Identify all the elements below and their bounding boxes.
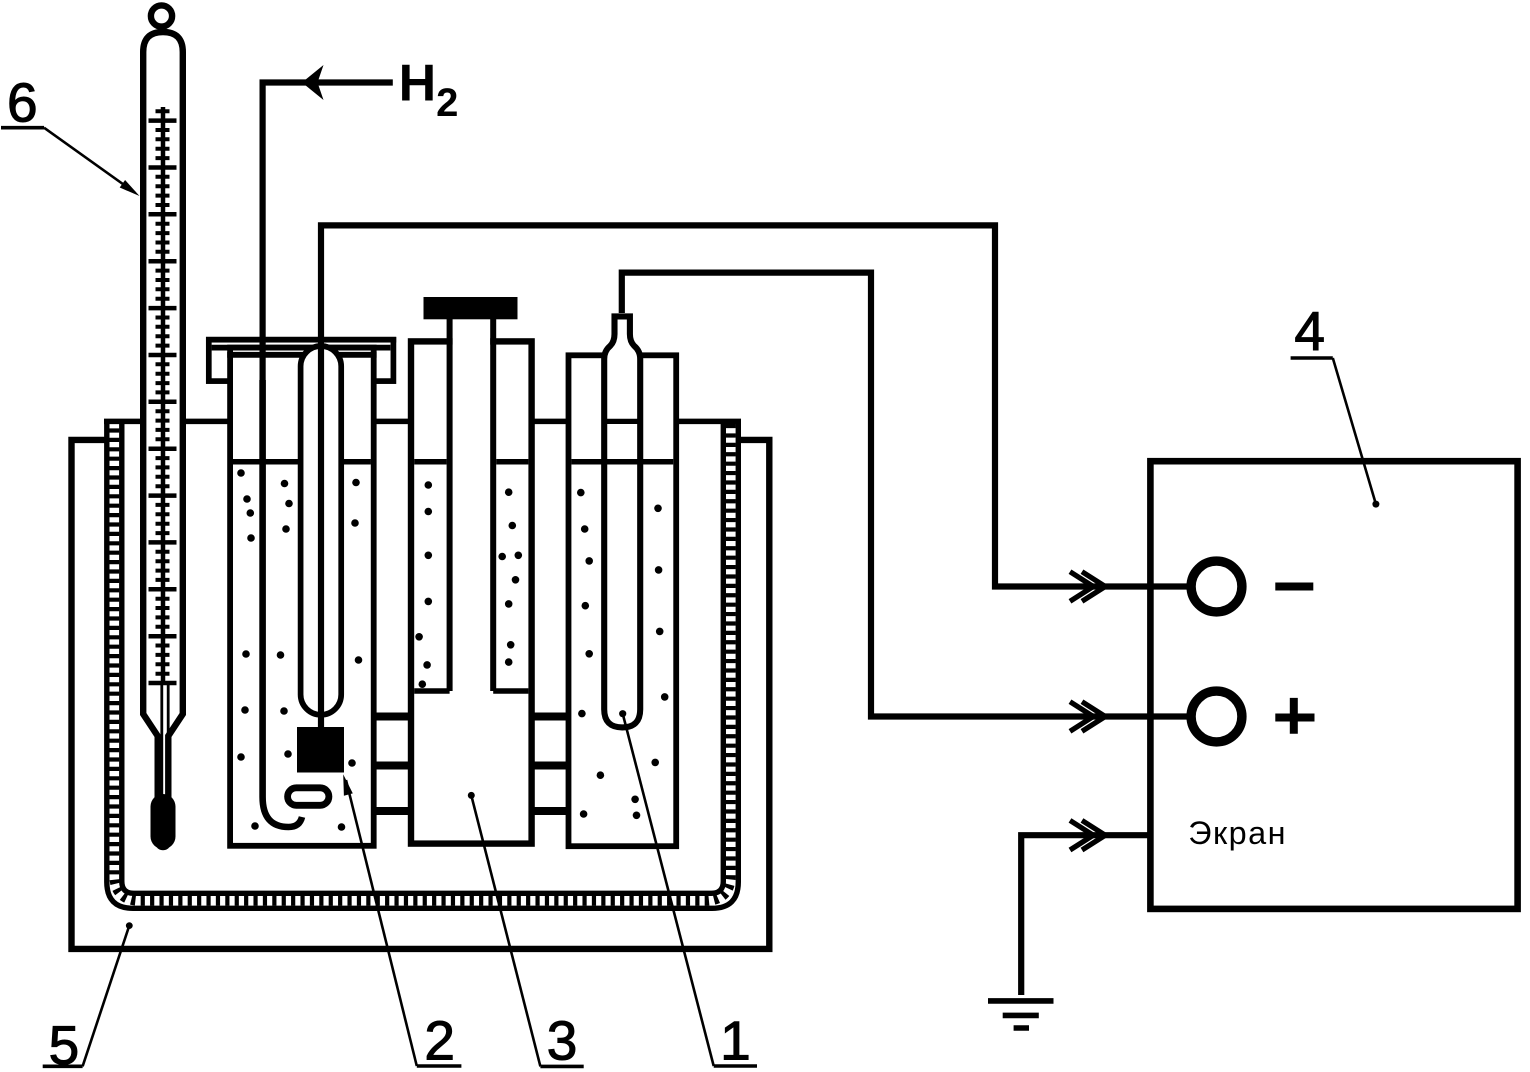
svg-text:3: 3 bbox=[547, 1010, 578, 1072]
svg-text:4: 4 bbox=[1294, 300, 1325, 362]
svg-text:5: 5 bbox=[49, 1014, 80, 1072]
svg-text:1: 1 bbox=[720, 1010, 751, 1072]
svg-text:Экран: Экран bbox=[1188, 815, 1287, 851]
svg-text:2: 2 bbox=[424, 1010, 455, 1072]
svg-text:H2: H2 bbox=[399, 55, 459, 126]
svg-text:6: 6 bbox=[7, 72, 38, 134]
